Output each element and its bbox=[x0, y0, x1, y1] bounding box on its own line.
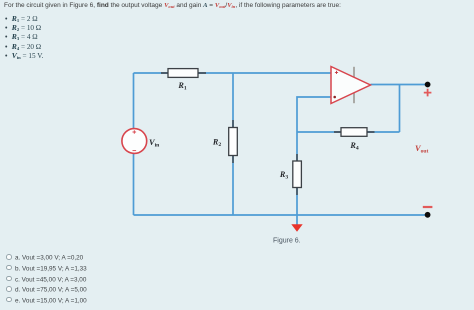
bullet R3 value bbox=[5, 32, 38, 41]
bullet R4 value bbox=[5, 42, 41, 51]
caption Figure 6 bbox=[273, 238, 301, 245]
wire: inverting input down through R3 bbox=[297, 97, 331, 215]
resistor R3 bbox=[279, 154, 302, 195]
voltage source Vin bbox=[122, 129, 160, 154]
wire: left vertical (source branch) bbox=[133, 73, 135, 215]
resistor R4 bbox=[334, 128, 375, 152]
output terminal + (top) bbox=[424, 82, 432, 97]
svg-text:R4: R4 bbox=[349, 141, 358, 152]
output terminal - (bottom) bbox=[423, 207, 433, 218]
svg-text:R3: R3 bbox=[279, 170, 288, 181]
wire: ground stub bbox=[296, 215, 298, 225]
bullet R2 value bbox=[5, 23, 41, 32]
answer option d bbox=[6, 286, 87, 294]
bullet Vin value bbox=[5, 51, 43, 60]
op-amp U1 bbox=[331, 67, 371, 104]
svg-text:Vin: Vin bbox=[149, 138, 160, 149]
resistor R2 bbox=[212, 120, 237, 163]
svg-text:R2: R2 bbox=[212, 138, 221, 149]
svg-text:Vout: Vout bbox=[415, 144, 429, 155]
wire: middle vertical through R2 bbox=[232, 73, 234, 215]
wire: right vertical from output to feedback bbox=[399, 85, 401, 133]
wire: bottom horizontal rail bbox=[134, 214, 428, 216]
wire: op-amp output to terminal bbox=[371, 84, 428, 86]
ground bbox=[291, 224, 302, 232]
answer option a bbox=[6, 254, 83, 262]
bullet R1 value bbox=[5, 14, 38, 23]
wire: feedback horizontal through R4 bbox=[297, 131, 400, 133]
node label Vout bbox=[415, 144, 429, 155]
answer option b bbox=[6, 265, 87, 273]
resistor R1 bbox=[161, 69, 206, 92]
answer option e bbox=[6, 297, 87, 305]
svg-text:R1: R1 bbox=[177, 81, 186, 92]
question text bbox=[4, 2, 341, 9]
svg-text:Figure 6.: Figure 6. bbox=[273, 238, 301, 245]
wire: top horizontal to op-amp non-inverting input bbox=[134, 72, 332, 74]
answer option c bbox=[6, 276, 86, 284]
